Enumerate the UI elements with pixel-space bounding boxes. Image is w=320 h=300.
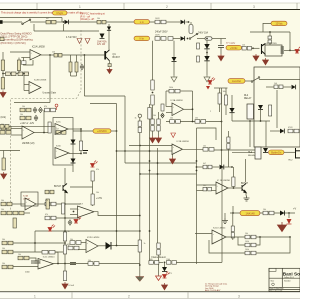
junction: [152, 92, 154, 94]
wire: [289, 32, 291, 50]
op-amp IC2B2: [78, 204, 95, 218]
wire: [9, 125, 55, 127]
wire IC2C output: [54, 263, 140, 265]
bus wire: [139, 133, 141, 277]
diode D13: [229, 108, 234, 113]
junction: [164, 262, 166, 264]
bus wire: [196, 128, 198, 161]
wire: [3, 73, 29, 75]
net label ChgIn: [53, 11, 68, 15]
wire IC2A input-: [21, 57, 30, 59]
wire: [34, 30, 99, 32]
svg-text:10k: 10k: [96, 192, 99, 194]
wire IC1B input: [129, 145, 172, 147]
resistor R50: [2, 250, 13, 254]
junction: [196, 170, 198, 172]
wire: [224, 213, 226, 218]
wire IC1B output: [183, 148, 204, 150]
wire: [81, 242, 86, 244]
resistor R60: [13, 218, 16, 228]
op-amp IC1A: [172, 103, 184, 116]
wire: [270, 130, 280, 132]
wire: [180, 90, 193, 92]
svg-text:1M0: 1M0: [166, 259, 170, 261]
section box relay: [254, 67, 300, 147]
capacitor C9: [35, 261, 41, 263]
junction: [80, 153, 82, 155]
power arrow red: [278, 222, 287, 232]
fuse F1: [205, 37, 212, 40]
svg-text:IC 1B LM358: IC 1B LM358: [217, 180, 231, 182]
connector J2: [296, 148, 301, 159]
resistor R69: [149, 261, 159, 265]
resistor R feedback: [42, 250, 55, 254]
junction: [232, 212, 234, 214]
junction: [139, 173, 141, 175]
svg-text:100R: 100R: [155, 35, 160, 37]
resistor R20: [48, 122, 51, 133]
svg-text:10k: 10k: [223, 91, 226, 93]
wire: [228, 149, 230, 167]
wire: [283, 86, 291, 88]
IC4 regulator box: [265, 45, 282, 56]
junction: [64, 242, 66, 244]
wire IC3D output: [69, 153, 81, 155]
wire: [30, 21, 46, 23]
wire: [92, 181, 94, 187]
title block: [269, 268, 300, 291]
svg-text:47k: 47k: [44, 106, 47, 108]
svg-text:10n: 10n: [203, 185, 206, 187]
LED D26: [208, 78, 215, 85]
wire: [63, 24, 65, 31]
wire: [284, 49, 300, 51]
junction: [80, 128, 82, 130]
wire to Q1 base: [62, 54, 104, 56]
op-amp IC1B: [172, 144, 183, 155]
resistor R49: [2, 241, 13, 245]
junction: [139, 264, 141, 266]
sheet bottom border: [0, 291, 300, 293]
wire: [70, 55, 72, 62]
resistor R71: [138, 240, 141, 252]
resistor R55: [63, 245, 66, 254]
resistor R10: [168, 37, 173, 41]
junction: [49, 54, 51, 56]
wire: [186, 21, 189, 23]
resistor R14: [274, 85, 283, 89]
resistor R5c: [18, 72, 29, 76]
diode D3: [107, 27, 111, 31]
wire: [70, 208, 78, 210]
relay coil RL2: [247, 104, 254, 119]
thermistor red mark: [206, 86, 210, 90]
resistor R52: [18, 256, 29, 260]
wire: [232, 206, 234, 213]
resistor R33: [161, 104, 164, 111]
wire: [164, 262, 166, 267]
junction: [221, 149, 223, 151]
svg-text:2: 2: [166, 5, 168, 9]
wire: [55, 251, 58, 253]
svg-text:RL2: RL2: [244, 95, 249, 97]
wire: [232, 120, 270, 122]
junction: [139, 230, 141, 232]
svg-text:4.7uF 50V: 4.7uF 50V: [66, 37, 77, 39]
test point TP1: [55, 104, 58, 107]
op-amp IC3D: [55, 148, 69, 159]
title block logo circle: [272, 283, 275, 286]
svg-text:10k: 10k: [18, 254, 21, 256]
junction: [231, 166, 233, 168]
resistor R53: [2, 265, 13, 269]
svg-text:10k: 10k: [97, 18, 100, 20]
junction: [124, 150, 126, 152]
svg-text:U2 LM7805: U2 LM7805: [266, 43, 278, 45]
resistor R37: [218, 93, 221, 104]
wire: [228, 187, 242, 189]
svg-text:10k: 10k: [1, 209, 4, 211]
svg-text:IC1A LM358: IC1A LM358: [171, 99, 184, 102]
diode D14: [258, 105, 263, 110]
resistor R58: [1, 211, 12, 215]
resistor R38: [224, 95, 227, 105]
resistor R51: [68, 246, 79, 250]
svg-text:IC3D: IC3D: [56, 146, 61, 148]
wire: [56, 21, 64, 23]
diode D17: [33, 107, 37, 113]
wire long: [140, 173, 197, 175]
wire: [61, 18, 63, 23]
wire: [24, 90, 29, 92]
svg-text:IC2D LM324: IC2D LM324: [87, 237, 100, 239]
wire: [219, 88, 221, 93]
wire feedback: [165, 91, 167, 107]
resistor R7: [75, 62, 78, 72]
wire: [206, 41, 208, 44]
ground at IC1B: [170, 157, 176, 164]
resistor R2: [97, 20, 106, 24]
svg-text:1: 1: [34, 294, 36, 298]
svg-text:100R: 100R: [155, 18, 160, 20]
svg-text:1k: 1k: [68, 245, 70, 247]
junction: [196, 160, 198, 162]
junction: [233, 187, 235, 189]
junction: [192, 108, 194, 110]
svg-text:10k: 10k: [1, 124, 4, 126]
wire: [197, 38, 211, 40]
ground: [171, 75, 177, 82]
zener diode D4: [100, 34, 105, 39]
svg-text:+1.5V: +1.5V: [96, 198, 103, 200]
junction: [149, 230, 151, 232]
resistor R62: [45, 216, 56, 220]
wire: [80, 151, 82, 154]
wire: [232, 213, 234, 226]
wire: [152, 131, 154, 136]
wire: [197, 184, 217, 186]
svg-text:ChgIn: ChgIn: [56, 11, 63, 15]
wire: [64, 192, 66, 231]
wire: [260, 110, 262, 121]
svg-text:100n: 100n: [25, 272, 31, 274]
resistor R48: [245, 251, 256, 255]
svg-text:10k: 10k: [70, 239, 73, 241]
resistor R3: [54, 53, 62, 57]
resistor R35: [195, 120, 206, 124]
wire: [249, 121, 251, 147]
op-amp IC2B: [29, 82, 41, 94]
svg-text:10k: 10k: [88, 260, 91, 262]
junction: [64, 251, 66, 253]
wire: [12, 203, 25, 205]
svg-text:10k: 10k: [203, 145, 206, 147]
svg-text:10k: 10k: [20, 114, 23, 116]
resistor R54: [63, 232, 66, 241]
wire drop: [83, 55, 85, 96]
wire IC2A output: [41, 54, 54, 56]
wire: [256, 237, 260, 245]
wire: [70, 72, 72, 76]
wire: [232, 151, 255, 153]
ground: [218, 54, 224, 61]
resistor R29: [151, 95, 154, 105]
resistor R13: [269, 105, 272, 116]
wire: [195, 233, 212, 235]
wire: [13, 266, 38, 268]
wire: [214, 87, 228, 89]
resistor R68: [157, 243, 160, 255]
svg-text:+5Vdc: +5Vdc: [230, 46, 238, 50]
wire: [173, 38, 180, 40]
wire: [231, 113, 233, 121]
ground: [150, 136, 156, 143]
net label 5Vdc: [226, 45, 242, 50]
wire: [284, 151, 296, 153]
junction: [259, 236, 261, 238]
svg-text:BoilerOn: BoilerOn: [271, 151, 282, 155]
polarity mark: [83, 151, 88, 154]
pass transistor Q2: [262, 44, 266, 55]
svg-text:BC337: BC337: [113, 56, 121, 59]
bus wire: [221, 122, 223, 168]
junction: [252, 47, 254, 49]
svg-text:LiveOut: LiveOut: [232, 79, 241, 83]
diode D28: [263, 148, 268, 153]
wire IC1A output: [184, 108, 193, 110]
junction: [64, 203, 66, 205]
wire: [214, 149, 255, 151]
wire: [250, 31, 290, 33]
bottom zone strip: [0, 292, 300, 298]
wire: [166, 90, 169, 92]
svg-text:10k: 10k: [263, 209, 266, 211]
net label LiveOut: [228, 79, 245, 84]
resistor R17: [45, 108, 56, 112]
wire: [230, 212, 295, 214]
wire: [158, 255, 160, 276]
resistor R47: [245, 243, 256, 247]
wire: [152, 105, 154, 119]
wire IC3C output: [68, 128, 81, 130]
op-amp IC2D: [86, 240, 98, 253]
svg-text:0.1uF: 0.1uF: [69, 285, 75, 287]
diode D23 black: [71, 140, 76, 145]
wire: [56, 217, 80, 219]
switch SW1: [22, 19, 31, 25]
wire: [252, 47, 260, 49]
wire: [228, 131, 230, 137]
ground red small: [156, 276, 162, 281]
wire: [150, 261, 164, 263]
diode D27: [220, 165, 224, 170]
transistor Q3: [242, 184, 246, 193]
wire: [197, 190, 204, 192]
wire: [64, 168, 66, 185]
wire: [233, 187, 235, 189]
wire: [158, 112, 160, 119]
net label BoilerOn: [269, 150, 285, 155]
wire: [56, 203, 80, 205]
junction: [296, 50, 298, 52]
resistor R59: [13, 211, 24, 215]
resistor R19: [1, 126, 11, 130]
diode D18: [39, 107, 43, 113]
capacitor C12: [268, 36, 272, 43]
wire: [176, 261, 222, 263]
diode D19: [34, 115, 38, 121]
resistor R15: [288, 129, 299, 133]
resistor R64: [46, 199, 49, 209]
large ground arrow: [136, 277, 145, 282]
resistor R43b: [203, 187, 212, 191]
wire: [69, 21, 97, 23]
svg-text:240V 10A: 240V 10A: [198, 32, 209, 35]
wire: [232, 238, 234, 240]
resistor R41: [203, 165, 212, 169]
wire: [206, 49, 208, 56]
svg-text:1k0: 1k0: [274, 83, 277, 85]
resistor R27: [79, 141, 82, 151]
junction: [196, 166, 198, 168]
bus wire: [116, 104, 118, 246]
wire: [288, 213, 290, 218]
svg-text:10k: 10k: [2, 239, 5, 241]
svg-text:1: 1: [79, 5, 81, 9]
junction: [84, 54, 86, 56]
diode D15: [292, 85, 296, 90]
resistor R61: [45, 202, 56, 206]
resistor R edge: [0, 37, 4, 40]
wire: [269, 43, 271, 45]
wire: [108, 24, 110, 50]
relay coil RL3: [255, 147, 261, 159]
wire: [76, 72, 78, 76]
wire: [24, 212, 30, 214]
junction: [64, 230, 66, 232]
junction: [249, 120, 251, 122]
svg-text:Jeffrey DL-F: Jeffrey DL-F: [284, 277, 295, 279]
wire: [263, 23, 271, 32]
junction: [139, 145, 141, 147]
ground: [222, 218, 228, 224]
junction: [187, 38, 189, 40]
ground: [263, 58, 269, 65]
diode D30 red: [287, 219, 292, 224]
wire: [57, 252, 59, 263]
svg-text:10k: 10k: [2, 248, 5, 250]
svg-text:4k7: 4k7: [46, 18, 49, 20]
junction: [43, 132, 45, 134]
wire: [206, 61, 208, 75]
op-amp IC2C: [38, 259, 54, 270]
svg-text:100k: 100k: [245, 249, 249, 251]
switch SW2: [189, 33, 198, 39]
svg-text:10k: 10k: [170, 118, 173, 120]
wire: [106, 21, 155, 23]
wire IC2A input+: [10, 51, 30, 53]
junction: [269, 31, 271, 33]
wire: [64, 231, 66, 271]
wire: [225, 88, 227, 95]
svg-text:IC2A LM358: IC2A LM358: [32, 46, 45, 49]
junction: [139, 215, 141, 217]
wire: [2, 52, 4, 60]
diode D1: [65, 20, 69, 25]
wire IC1B input: [117, 150, 173, 152]
junction: [64, 263, 66, 265]
svg-text:3: 3: [238, 294, 240, 298]
wire: [265, 121, 267, 147]
wire: [166, 121, 222, 123]
resistor R56: [63, 271, 66, 281]
wire: [11, 128, 22, 130]
net label Live: [134, 20, 150, 24]
wire feedback: [238, 237, 245, 245]
svg-text:100k: 100k: [245, 241, 249, 243]
wire: [11, 134, 22, 136]
svg-text:2: 2: [128, 294, 130, 298]
svg-text:47k: 47k: [96, 169, 99, 171]
resistor R31: [157, 119, 160, 131]
wire IC2A feedback: [24, 58, 34, 66]
wire: [70, 214, 78, 216]
resistor R22: [0, 125, 9, 129]
junction: [260, 120, 262, 122]
svg-text:This circuit charge day is wee: This circuit charge day is weekly if cur…: [1, 12, 84, 15]
wire: [124, 96, 126, 163]
svg-text:(10k): (10k): [1, 117, 6, 119]
op-amp IC1D: [212, 230, 226, 244]
diode D29: [280, 211, 285, 216]
wire: [190, 22, 192, 25]
wire: [276, 90, 278, 128]
wire: [139, 118, 141, 122]
op-amp IC1C: [216, 182, 228, 194]
svg-text:LM358 (1/2): LM358 (1/2): [22, 143, 35, 145]
wire: [158, 131, 160, 136]
resistor R32: [169, 89, 180, 93]
bus wire: [196, 161, 198, 264]
diode D10: [204, 56, 209, 61]
test point TP2: [138, 114, 141, 117]
wire: [43, 110, 45, 133]
wire: [245, 193, 247, 196]
connector J1: [0, 20, 3, 24]
wire: [173, 41, 175, 57]
svg-text:100k: 100k: [169, 87, 173, 89]
wire: [34, 231, 36, 252]
